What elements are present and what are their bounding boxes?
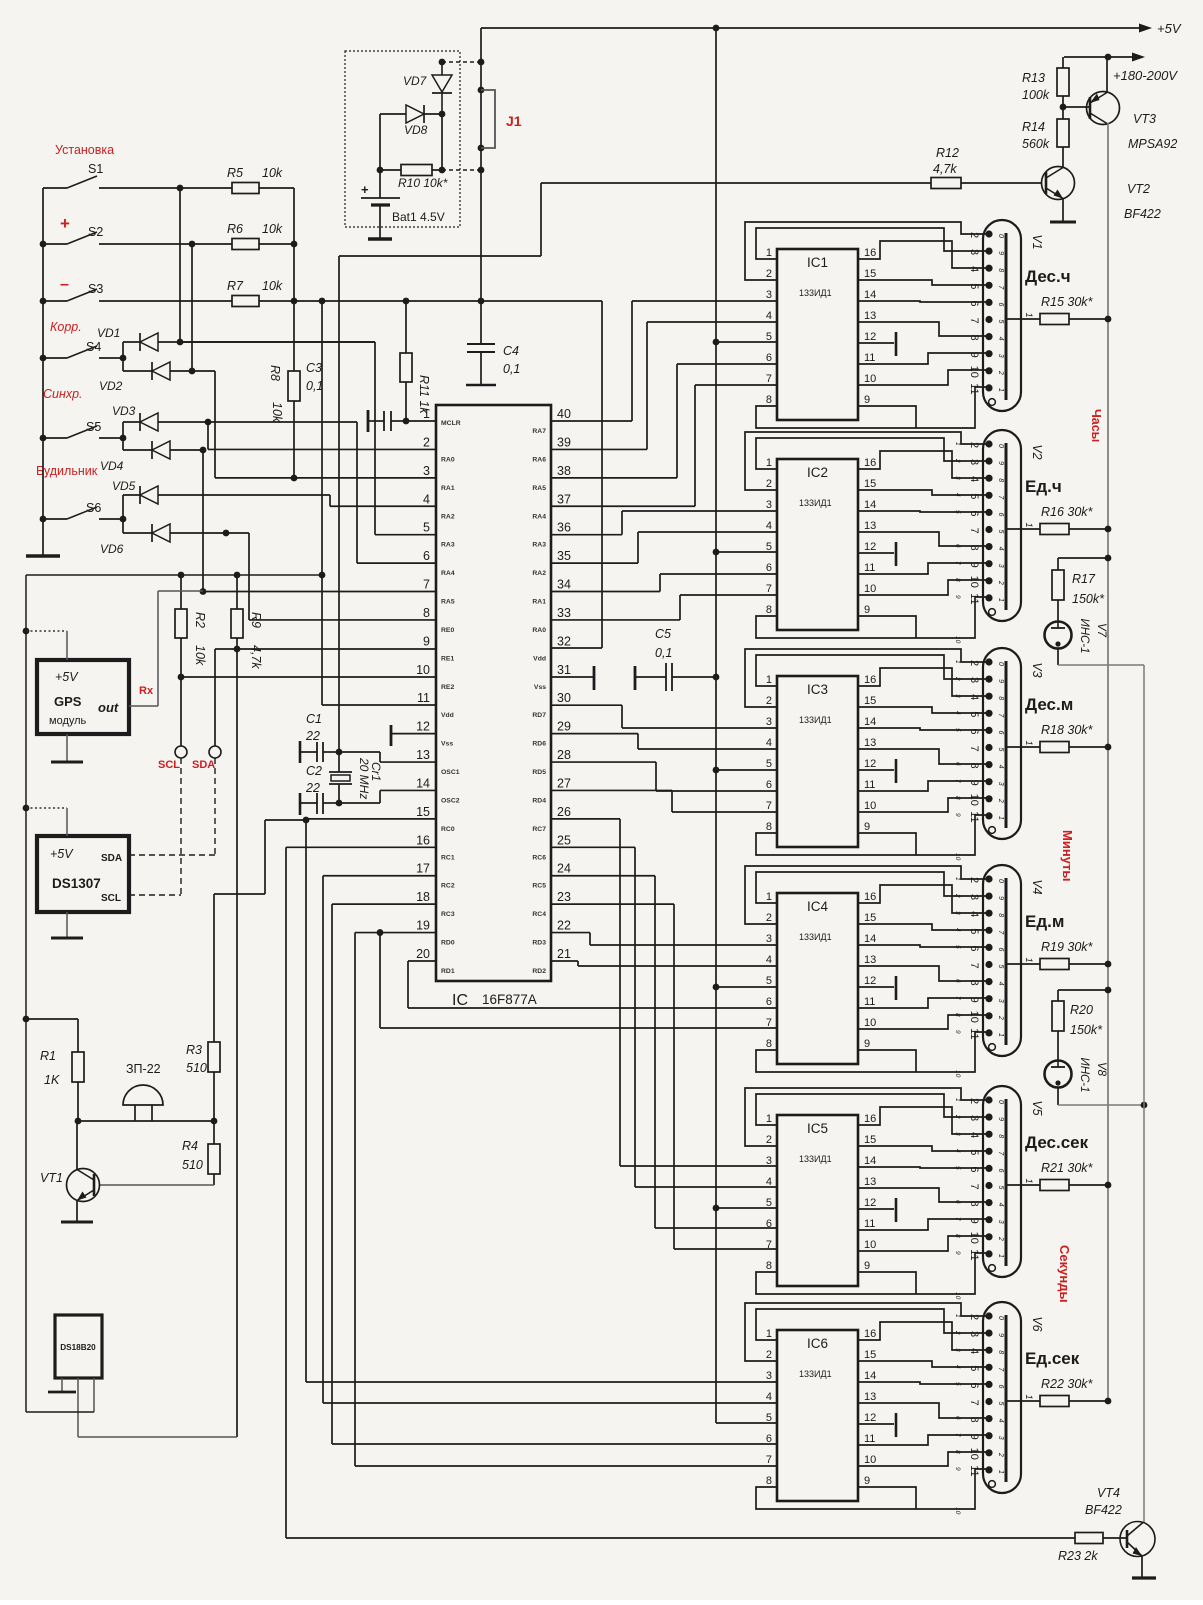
- svg-text:11: 11: [864, 779, 875, 791]
- svg-text:27: 27: [557, 776, 571, 790]
- svg-text:3: 3: [997, 1436, 1004, 1440]
- wire IC2 pin2 loop to tube: [745, 432, 988, 490]
- svg-text:4: 4: [766, 520, 772, 532]
- svg-text:IC1: IC1: [807, 255, 828, 270]
- node +5V rail: [481, 27, 1141, 29]
- tube connector V4: [983, 865, 1021, 1056]
- svg-text:V8: V8: [1095, 1062, 1107, 1077]
- svg-text:13: 13: [864, 954, 876, 966]
- svg-text:Корр.: Корр.: [50, 320, 82, 334]
- svg-text:13: 13: [864, 520, 876, 532]
- svg-text:3: 3: [766, 933, 772, 945]
- wire RC0 pin15 to IC6 pin3: [306, 818, 436, 820]
- svg-text:MCLR: MCLR: [441, 420, 461, 427]
- svg-text:14: 14: [864, 933, 876, 945]
- svg-text:12: 12: [864, 541, 876, 553]
- ground GPS: [66, 734, 68, 762]
- svg-text:133ИД1: 133ИД1: [799, 1154, 832, 1164]
- wire IC6 pin2 loop to tube: [745, 1303, 988, 1361]
- svg-text:2: 2: [766, 695, 772, 707]
- svg-text:13: 13: [864, 1391, 876, 1403]
- svg-text:MPSA92: MPSA92: [1128, 137, 1177, 151]
- svg-text:15: 15: [416, 805, 430, 819]
- svg-text:11: 11: [968, 1249, 980, 1260]
- svg-text:11: 11: [864, 996, 875, 1008]
- svg-text:R12: R12: [936, 146, 959, 160]
- wire pin21 to driver input: [551, 960, 578, 962]
- svg-text:1: 1: [954, 660, 961, 664]
- svg-text:3: 3: [968, 249, 980, 255]
- svg-text:10k: 10k: [262, 222, 283, 236]
- svg-text:510: 510: [186, 1061, 207, 1075]
- svg-text:5: 5: [968, 493, 980, 499]
- svg-text:133ИД1: 133ИД1: [799, 498, 832, 508]
- svg-text:R13: R13: [1022, 71, 1045, 85]
- svg-text:RC3: RC3: [441, 911, 455, 918]
- svg-text:2: 2: [968, 660, 980, 666]
- svg-text:VD4: VD4: [100, 459, 124, 473]
- op-amp IC5 133ИД1 driver: [777, 1115, 858, 1286]
- svg-text:10: 10: [954, 1070, 961, 1078]
- svg-text:150k*: 150k*: [1072, 592, 1105, 606]
- svg-text:14: 14: [864, 1155, 876, 1167]
- svg-text:25: 25: [557, 833, 571, 847]
- svg-text:10k: 10k: [193, 645, 207, 666]
- svg-text:R3: R3: [186, 1043, 202, 1057]
- svg-text:0: 0: [997, 662, 1004, 666]
- svg-text:Ед.сек: Ед.сек: [1025, 1349, 1080, 1368]
- svg-text:2: 2: [997, 1236, 1004, 1241]
- svg-text:RA4: RA4: [532, 513, 546, 520]
- wire IC1 pin12 terminal: [858, 342, 894, 344]
- resistor R20 150k*: [1105, 987, 1112, 994]
- svg-text:RD6: RD6: [532, 741, 546, 748]
- svg-text:SDA: SDA: [101, 853, 122, 864]
- svg-text:RC0: RC0: [441, 826, 455, 833]
- svg-text:RA4: RA4: [441, 570, 455, 577]
- svg-text:RA1: RA1: [441, 485, 455, 492]
- svg-text:3: 3: [997, 1220, 1004, 1224]
- svg-text:SCL: SCL: [101, 893, 121, 904]
- wire pin23 to driver input: [551, 903, 674, 905]
- svg-text:36: 36: [557, 521, 571, 535]
- svg-text:Установка: Установка: [55, 143, 114, 157]
- svg-text:20: 20: [416, 947, 430, 961]
- svg-text:5: 5: [766, 1412, 772, 1424]
- svg-text:+5V: +5V: [50, 847, 74, 861]
- svg-text:19: 19: [416, 919, 430, 933]
- svg-text:3: 3: [997, 999, 1004, 1003]
- svg-text:Дес.сек: Дес.сек: [1025, 1133, 1089, 1152]
- svg-text:OSC1: OSC1: [441, 769, 460, 776]
- wire left rail to R1: [23, 1016, 30, 1023]
- svg-text:1: 1: [766, 1328, 772, 1340]
- svg-text:R8: R8: [268, 365, 282, 381]
- wire IC2 pin15 to tube: [858, 490, 988, 495]
- svg-text:1: 1: [954, 442, 961, 446]
- svg-text:RC5: RC5: [532, 883, 546, 890]
- ground VT4: [1141, 1556, 1143, 1578]
- wire dashed battery to J1: [442, 61, 481, 63]
- svg-text:16: 16: [864, 247, 876, 259]
- svg-text:1K: 1K: [44, 1073, 60, 1087]
- svg-text:7: 7: [766, 373, 772, 385]
- svg-text:2: 2: [968, 1098, 980, 1104]
- svg-text:11: 11: [864, 562, 875, 574]
- svg-text:VT4: VT4: [1097, 1486, 1120, 1500]
- node +180-200V: [1064, 56, 1133, 58]
- wire IC6 pin13 to tube: [858, 1403, 988, 1418]
- svg-text:8: 8: [997, 1134, 1004, 1138]
- svg-text:10: 10: [968, 794, 980, 806]
- wire IC3 pin13 to tube: [858, 749, 988, 764]
- svg-text:133ИД1: 133ИД1: [799, 288, 832, 298]
- wire RC1 pin16 to R23: [286, 846, 436, 848]
- svg-text:3: 3: [954, 694, 961, 698]
- wire IC3 pin9 stub: [858, 833, 916, 855]
- svg-text:Синхр.: Синхр.: [43, 387, 83, 401]
- svg-text:4: 4: [766, 954, 772, 966]
- svg-text:7: 7: [954, 996, 961, 1000]
- svg-text:GPS: GPS: [54, 694, 82, 709]
- svg-text:8: 8: [997, 1350, 1004, 1354]
- wire pin36 to driver input: [551, 534, 622, 536]
- wire IC1 pin13 to tube: [858, 322, 988, 336]
- svg-text:5: 5: [954, 945, 961, 949]
- svg-text:9: 9: [968, 1434, 980, 1440]
- svg-text:13: 13: [864, 1176, 876, 1188]
- wire VT2 collector to R14: [1062, 147, 1064, 167]
- svg-text:5: 5: [954, 510, 961, 514]
- wire IC4 pin13 to tube: [858, 966, 988, 981]
- wire GPS out to PIC: [129, 705, 158, 707]
- wire IC1 pin10 to tube: [858, 370, 988, 385]
- wire IC6 pin12 terminal: [858, 1423, 894, 1425]
- svg-text:7: 7: [766, 583, 772, 595]
- svg-text:6: 6: [954, 1416, 961, 1420]
- svg-text:IC2: IC2: [807, 465, 828, 480]
- wire IC2 pin12 terminal: [858, 552, 894, 554]
- node SDA test point: [214, 649, 216, 746]
- svg-text:1: 1: [1024, 957, 1034, 962]
- wire IC6 pin14 to tube: [858, 1382, 988, 1384]
- svg-text:J1: J1: [506, 113, 522, 129]
- svg-text:9: 9: [997, 896, 1004, 900]
- svg-text:–: –: [60, 276, 69, 293]
- svg-text:4: 4: [954, 1365, 961, 1369]
- svg-text:5: 5: [766, 975, 772, 987]
- svg-text:9: 9: [968, 352, 980, 358]
- svg-text:Дес.м: Дес.м: [1025, 695, 1073, 714]
- svg-text:8: 8: [997, 268, 1004, 272]
- wire IC3 pin8 loop under: [756, 815, 988, 855]
- svg-text:7: 7: [968, 1399, 980, 1405]
- svg-text:11: 11: [968, 383, 980, 394]
- svg-text:RD2: RD2: [532, 968, 546, 975]
- svg-text:5: 5: [766, 1197, 772, 1209]
- svg-text:RC4: RC4: [532, 911, 546, 918]
- svg-text:11: 11: [864, 1433, 875, 1445]
- svg-text:VD6: VD6: [100, 542, 124, 556]
- svg-text:6: 6: [766, 1433, 772, 1445]
- svg-text:4: 4: [997, 547, 1004, 551]
- wire IC3 pin10 to tube: [858, 798, 988, 812]
- wire IC1 pin11 to tube: [858, 353, 988, 364]
- svg-text:5: 5: [997, 965, 1004, 969]
- svg-text:RD0: RD0: [441, 940, 455, 947]
- svg-text:RA7: RA7: [532, 428, 546, 435]
- wire R9 to DS18B20 data: [236, 649, 238, 1437]
- svg-text:8: 8: [766, 394, 772, 406]
- svg-text:8: 8: [954, 578, 961, 582]
- svg-text:1: 1: [766, 674, 772, 686]
- svg-text:33: 33: [557, 606, 571, 620]
- svg-text:4: 4: [997, 982, 1004, 986]
- wire +5V distribution left: [26, 574, 322, 576]
- svg-text:RD1: RD1: [441, 968, 455, 975]
- svg-text:RA3: RA3: [532, 542, 546, 549]
- svg-text:6: 6: [997, 302, 1004, 306]
- svg-text:9: 9: [997, 1333, 1004, 1337]
- wire IC5 pin9 stub: [858, 1272, 916, 1294]
- svg-text:18: 18: [416, 890, 430, 904]
- svg-text:11: 11: [417, 691, 430, 705]
- svg-text:R15 30k*: R15 30k*: [1041, 295, 1094, 309]
- svg-text:10: 10: [416, 663, 430, 677]
- svg-text:8: 8: [954, 796, 961, 800]
- svg-text:6: 6: [766, 1218, 772, 1230]
- svg-text:VD3: VD3: [112, 404, 136, 418]
- svg-text:2: 2: [968, 877, 980, 883]
- wire pin27 to driver input: [551, 789, 672, 791]
- wire R23 line: [286, 1537, 1075, 1539]
- wire +5V to IC4 pin5: [713, 984, 720, 991]
- svg-text:0,1: 0,1: [655, 646, 672, 660]
- svg-text:6: 6: [968, 1166, 980, 1172]
- wire RD0 pin19 to IC6 pin7: [355, 932, 436, 934]
- wire IC4 pin9 stub: [858, 1050, 916, 1072]
- wire DS18B20 right pin: [93, 1378, 95, 1412]
- svg-text:4: 4: [997, 765, 1004, 769]
- svg-text:133ИД1: 133ИД1: [799, 715, 832, 725]
- wire IC2 pin1 loop to tube: [756, 438, 988, 469]
- wire RD0 branch to IC4 pin7: [379, 933, 381, 1028]
- svg-text:Ед.ч: Ед.ч: [1025, 477, 1062, 496]
- svg-text:IC5: IC5: [807, 1121, 828, 1136]
- svg-text:16: 16: [416, 833, 430, 847]
- svg-text:1: 1: [1024, 312, 1034, 317]
- wire IC3 pin1 loop to tube: [756, 655, 988, 686]
- neon lamp V7 ИНС-1: [1057, 600, 1059, 622]
- svg-text:2: 2: [954, 1114, 961, 1119]
- svg-text:4: 4: [997, 337, 1004, 341]
- svg-text:9: 9: [864, 1038, 870, 1050]
- svg-text:R21 30k*: R21 30k*: [1041, 1161, 1094, 1175]
- wire pin28 to driver input: [551, 761, 656, 763]
- svg-text:4,7k: 4,7k: [933, 162, 957, 176]
- wire pin29 to driver input: [551, 733, 638, 735]
- svg-text:4: 4: [766, 310, 772, 322]
- IC DS1307 RTC: [37, 836, 129, 912]
- IC 16F877A microcontroller: [436, 405, 551, 981]
- svg-text:37: 37: [557, 492, 571, 506]
- svg-text:0: 0: [997, 879, 1004, 883]
- ground DS18B20: [61, 1378, 63, 1391]
- svg-text:DS18B20: DS18B20: [60, 1343, 96, 1352]
- svg-text:6: 6: [968, 1382, 980, 1388]
- svg-text:RA5: RA5: [532, 485, 546, 492]
- svg-text:6: 6: [997, 1168, 1004, 1172]
- svg-text:8: 8: [766, 1475, 772, 1487]
- svg-text:12: 12: [864, 975, 876, 987]
- wire +5V to IC2 pin5: [713, 549, 720, 556]
- svg-text:12: 12: [416, 720, 430, 734]
- svg-text:IC3: IC3: [807, 682, 828, 697]
- wire DS1307 +5V: [23, 805, 30, 812]
- svg-text:Vss: Vss: [441, 741, 453, 748]
- svg-text:4: 4: [997, 1419, 1004, 1423]
- svg-text:ИНС-1: ИНС-1: [1078, 1057, 1090, 1092]
- svg-text:4: 4: [954, 711, 961, 715]
- svg-text:1: 1: [997, 388, 1004, 392]
- svg-text:DS1307: DS1307: [52, 876, 101, 891]
- tube connector V1: [983, 220, 1021, 411]
- svg-text:RA5: RA5: [441, 599, 455, 606]
- svg-text:32: 32: [557, 634, 571, 648]
- tube connector V2: [983, 430, 1021, 621]
- svg-text:3: 3: [766, 289, 772, 301]
- svg-text:6: 6: [968, 510, 980, 516]
- svg-text:10: 10: [968, 1232, 980, 1244]
- svg-text:4: 4: [968, 911, 980, 917]
- wire IC1 pin15 to tube: [858, 280, 988, 285]
- svg-text:9: 9: [954, 1030, 961, 1034]
- svg-text:10: 10: [864, 583, 876, 595]
- svg-text:RA2: RA2: [532, 570, 546, 577]
- svg-text:9: 9: [864, 1475, 870, 1487]
- svg-text:560k: 560k: [1022, 137, 1050, 151]
- wire IC6 pin11 to tube: [858, 1435, 988, 1445]
- svg-text:Часы: Часы: [1089, 409, 1103, 442]
- svg-text:R2: R2: [193, 612, 207, 628]
- svg-text:IC4: IC4: [807, 899, 829, 914]
- svg-text:RE1: RE1: [441, 655, 454, 662]
- svg-text:8: 8: [968, 545, 980, 551]
- ground VT1: [76, 1200, 78, 1222]
- svg-text:6: 6: [968, 945, 980, 951]
- wire IC2 pin11 to tube: [858, 563, 988, 574]
- svg-text:5: 5: [997, 320, 1004, 324]
- svg-text:VD8: VD8: [404, 123, 428, 137]
- op-amp IC1 133ИД1 driver: [777, 249, 858, 420]
- wire Vss pin12 terminal: [390, 725, 393, 746]
- svg-text:V5: V5: [1030, 1100, 1044, 1115]
- svg-text:6: 6: [954, 544, 961, 548]
- svg-text:29: 29: [557, 720, 571, 734]
- svg-text:9: 9: [997, 251, 1004, 255]
- wire GPS +5V: [23, 628, 30, 635]
- svg-text:C2: C2: [306, 764, 322, 778]
- svg-text:RD4: RD4: [532, 797, 546, 804]
- wire IC5 pin8 loop under: [756, 1253, 988, 1294]
- svg-text:3: 3: [997, 782, 1004, 786]
- wire IC4 pin16 to tube: [858, 885, 988, 913]
- svg-text:9: 9: [954, 1467, 961, 1471]
- wire IC4 pin11 to tube: [858, 998, 988, 1008]
- node +5V line to PIC: [294, 300, 602, 302]
- svg-text:4: 4: [766, 737, 772, 749]
- wire RE1 pin9 / R9: [215, 648, 237, 650]
- svg-text:10: 10: [864, 373, 876, 385]
- svg-text:39: 39: [557, 435, 571, 449]
- svg-text:2: 2: [954, 676, 961, 681]
- svg-text:Минуты: Минуты: [1060, 830, 1075, 882]
- ground DS1307: [66, 912, 68, 938]
- wire Vdd pin11 feed: [321, 301, 323, 705]
- svg-text:1: 1: [766, 1113, 772, 1125]
- svg-text:C4: C4: [503, 344, 519, 358]
- wire IC5 pin16 to tube: [858, 1107, 988, 1134]
- svg-text:RA0: RA0: [441, 456, 455, 463]
- svg-text:RC6: RC6: [532, 854, 546, 861]
- svg-text:7: 7: [968, 962, 980, 968]
- svg-text:22: 22: [305, 781, 320, 795]
- wire R5-R7 common to +5V: [293, 188, 295, 301]
- svg-text:16: 16: [864, 1328, 876, 1340]
- svg-text:133ИД1: 133ИД1: [799, 932, 832, 942]
- svg-text:9: 9: [954, 1251, 961, 1255]
- svg-text:RD7: RD7: [532, 712, 546, 719]
- svg-text:0: 0: [997, 1316, 1004, 1320]
- wire +5V left rail: [25, 575, 27, 1412]
- svg-text:10: 10: [864, 1017, 876, 1029]
- svg-text:6: 6: [997, 1384, 1004, 1388]
- svg-text:12: 12: [864, 331, 876, 343]
- svg-text:9: 9: [997, 1117, 1004, 1121]
- svg-text:4: 4: [997, 1203, 1004, 1207]
- svg-text:Будильник: Будильник: [36, 464, 98, 478]
- svg-text:SDA: SDA: [192, 759, 215, 771]
- svg-text:VD7: VD7: [403, 74, 428, 88]
- wire IC3 pin11 to tube: [858, 781, 988, 791]
- wire V8 to VT4 line: [1057, 1088, 1059, 1105]
- svg-text:2: 2: [766, 268, 772, 280]
- svg-text:10: 10: [864, 1454, 876, 1466]
- svg-text:9: 9: [968, 1218, 980, 1224]
- wire OSC1: [339, 751, 380, 753]
- wire IC6 pin1 loop to tube: [756, 1309, 988, 1340]
- svg-text:16: 16: [864, 891, 876, 903]
- wire IC3 pin12 terminal: [858, 769, 894, 771]
- svg-text:2: 2: [997, 1015, 1004, 1020]
- svg-text:2: 2: [766, 1349, 772, 1361]
- svg-text:RE0: RE0: [441, 627, 454, 634]
- svg-text:7: 7: [766, 1454, 772, 1466]
- svg-text:R4: R4: [182, 1139, 198, 1153]
- svg-text:2: 2: [997, 370, 1004, 375]
- wire VD3 to RA0 pin2: [207, 422, 209, 449]
- svg-text:S1: S1: [88, 162, 103, 176]
- wire pin39 to driver input: [551, 448, 647, 450]
- svg-text:6: 6: [997, 730, 1004, 734]
- wire RC2 pin17 to IC6 pin4: [323, 875, 436, 877]
- wire IC4 pin8 loop under: [756, 1032, 988, 1072]
- svg-text:100k: 100k: [1022, 88, 1050, 102]
- svg-text:11: 11: [968, 1028, 980, 1039]
- wire IC2 pin10 to tube: [858, 580, 988, 595]
- svg-text:2: 2: [968, 1314, 980, 1320]
- svg-text:1: 1: [997, 1470, 1004, 1474]
